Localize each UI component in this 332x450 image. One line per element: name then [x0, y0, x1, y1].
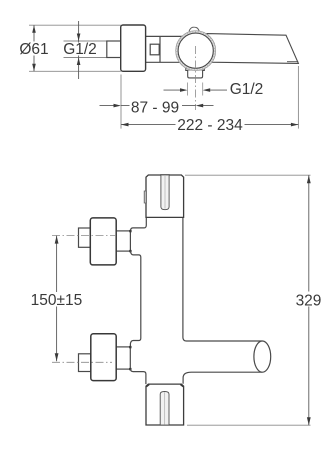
arrow 87-99 left	[114, 104, 122, 108]
upper union pipe top	[117, 230, 131, 232]
lower wall nipple	[79, 354, 91, 372]
wall flange side view	[121, 25, 146, 71]
dimension line D61	[33, 25, 35, 71]
arrow 329 bottom	[307, 417, 311, 425]
extension line wall face	[120, 75, 122, 129]
dimension line 329	[308, 175, 310, 425]
centerline upper union	[52, 234, 116, 236]
upper wall nipple	[79, 228, 91, 247]
top cap slot middle line	[164, 176, 166, 209]
dimension G1/2 outlet left	[164, 89, 181, 91]
spout end ellipse	[254, 341, 271, 372]
label G1/2 wall	[64, 43, 96, 55]
knob knurl ticks	[177, 32, 215, 70]
knob circle outer edge	[176, 31, 216, 71]
upper union pipe bottom	[117, 250, 131, 252]
lower union connector vertical	[129, 347, 131, 369]
arrow G1/2 wall bottom	[77, 58, 81, 66]
arrow 87-99 right	[196, 104, 204, 108]
top cap	[146, 175, 184, 217]
lower union joint top	[129, 346, 131, 348]
lower union exit to column	[130, 369, 146, 384]
body top line	[145, 35, 184, 37]
upper union connector vertical	[129, 231, 131, 251]
top cap slot	[161, 175, 169, 209]
top cap knurl nub	[144, 191, 146, 203]
svg-text:222 - 234: 222 - 234	[177, 117, 243, 134]
outlet extension line right	[202, 83, 204, 96]
lower union pipe top	[116, 346, 130, 348]
spout	[207, 34, 298, 64]
extension line flange top	[29, 24, 121, 26]
spout bottom and column stub	[183, 372, 262, 384]
spout aerator line	[287, 61, 298, 63]
body left edge	[159, 36, 161, 62]
329 extension line top	[185, 174, 311, 176]
upper wall flange	[90, 218, 116, 265]
arrow G1/2 outlet left	[180, 88, 188, 92]
arrow 222-234 left	[121, 123, 129, 127]
svg-text:329: 329	[296, 292, 322, 309]
bottom cap corner tick right	[180, 384, 183, 386]
bottom cap corner tick left	[146, 384, 149, 386]
arrow D61 bottom	[32, 64, 36, 72]
column left edge above upper union	[131, 218, 147, 231]
extension line spout tip	[297, 66, 299, 129]
dimension 222-234 right	[245, 124, 299, 126]
column right edge and spout top	[183, 218, 262, 341]
bottom cap slot	[160, 392, 169, 425]
dimension line G1/2 wall	[78, 21, 80, 79]
body bottom line	[145, 61, 182, 63]
lower union pipe bottom	[116, 368, 130, 370]
lower union joint bottom	[129, 368, 131, 370]
dimension G1/2 outlet right	[210, 89, 227, 91]
shower outlet thread	[188, 70, 203, 78]
arrow 150 top	[55, 236, 59, 244]
arrow 222-234 right	[291, 123, 299, 127]
svg-text:G1/2: G1/2	[230, 81, 264, 98]
extension line nipple bottom	[64, 57, 107, 59]
svg-text:150±15: 150±15	[31, 292, 83, 309]
dimension line 150+-15	[56, 236, 58, 362]
dimension 87-99 left	[100, 105, 130, 107]
arrow 150 bottom	[55, 353, 59, 361]
extension line nipple top	[64, 40, 107, 42]
arrow G1/2 wall top	[77, 34, 81, 42]
arrow D61 top	[32, 25, 36, 33]
arrow 329 top	[307, 175, 311, 183]
top cap slot plug bump	[160, 174, 170, 176]
knob knurl band	[177, 32, 214, 69]
wall nipple side view	[107, 41, 121, 58]
svg-text:87 - 99: 87 - 99	[131, 99, 179, 116]
arrow G1/2 outlet right	[203, 88, 211, 92]
knob inner circle	[178, 33, 213, 68]
knob safety button bump	[189, 27, 199, 31]
lower wall flange	[91, 334, 116, 381]
bottom cap	[146, 384, 184, 425]
extension line flange bottom	[29, 70, 121, 72]
dimension 222-234 left	[121, 124, 176, 126]
bulge left edge between unions	[130, 251, 140, 347]
svg-text:Ø61: Ø61	[19, 41, 48, 58]
dimension 87-99 right	[182, 105, 214, 107]
shower outlet collar	[186, 66, 205, 70]
upper union joint bottom	[129, 250, 131, 252]
centerline vertical	[195, 46, 197, 110]
svg-text:G1/2: G1/2	[63, 41, 97, 58]
upper union joint top	[129, 230, 131, 232]
bottom cap slot middle line	[164, 392, 166, 424]
centerline lower union	[52, 361, 112, 363]
329 extension line bottom	[187, 424, 311, 426]
outlet extension line left	[187, 83, 189, 96]
union nut side view	[150, 44, 159, 55]
